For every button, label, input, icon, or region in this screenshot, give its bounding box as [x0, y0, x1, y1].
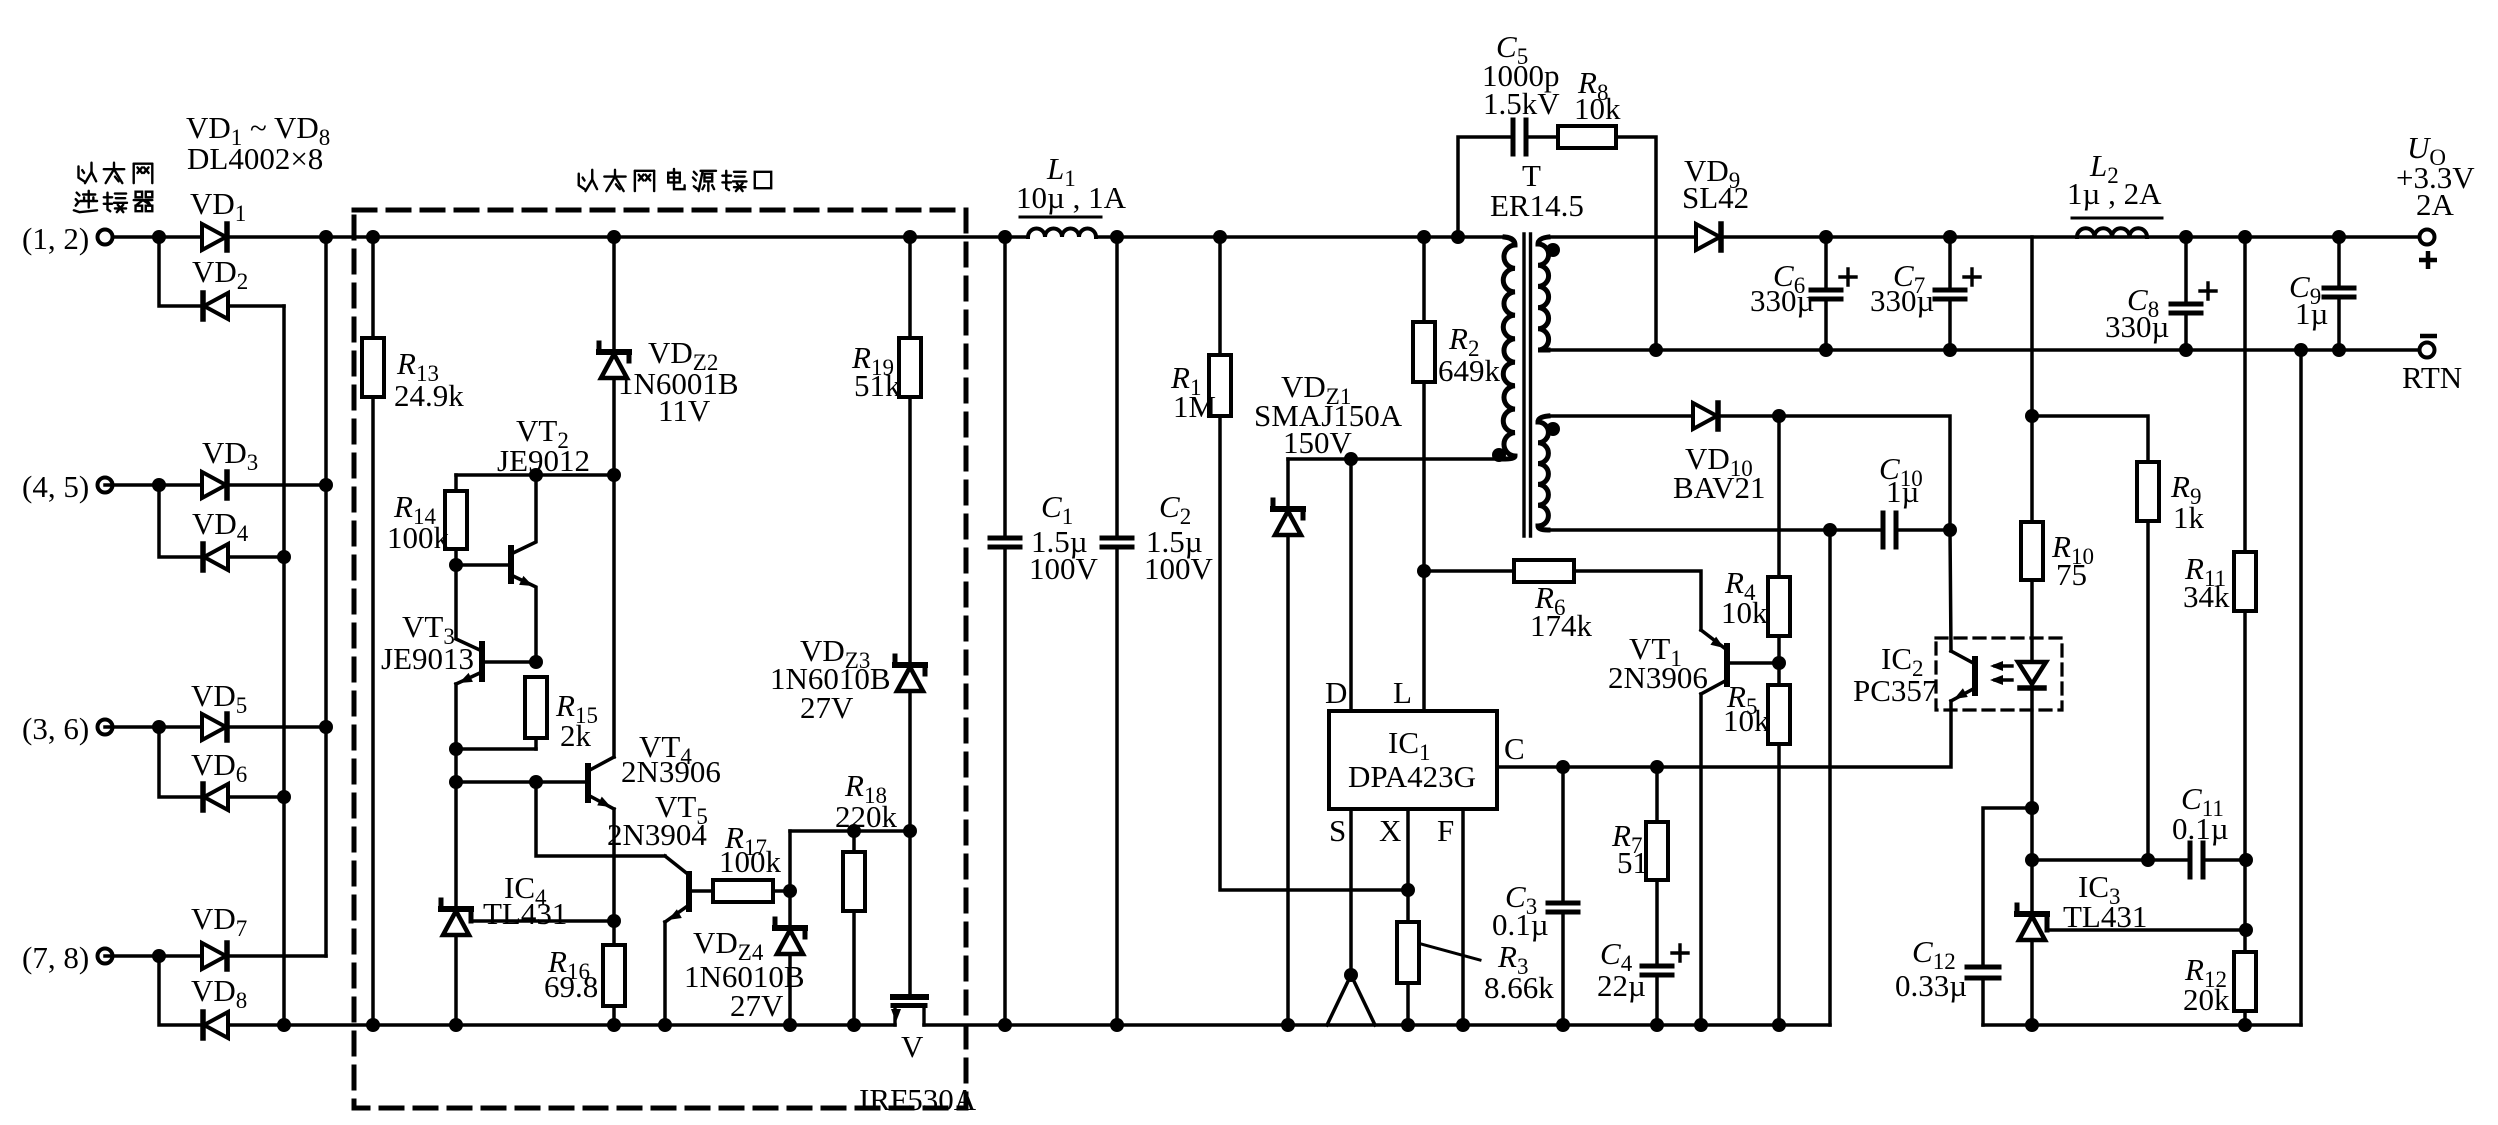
wire R10 to LED: [2030, 580, 2034, 662]
svg-text:BAV21: BAV21: [1673, 470, 1765, 505]
capacitor C3 0.1u: [1548, 901, 1578, 906]
wire primary bottom wire y459: [1288, 457, 1500, 461]
node junction VD3 cathode: [319, 478, 333, 492]
wire C10 to VD10 node: [1898, 528, 1950, 532]
wire R13 top lead: [371, 237, 375, 338]
arrow opto emitter: [1954, 688, 1968, 699]
wire VD10 cathode wire: [1718, 416, 1950, 530]
svg-text:1µ: 1µ: [1886, 474, 1919, 509]
wire R4 bottom lead: [1777, 636, 1781, 663]
node junction R7 top: [1650, 760, 1664, 774]
wire IC4 ref wire: [471, 919, 614, 923]
capacitor C1 1.5u: [990, 536, 1020, 541]
wire D pin lead: [1349, 459, 1353, 711]
node junction IC3 bus: [2025, 1018, 2039, 1032]
wire R6 left wire: [1424, 569, 1514, 573]
node junction (3,6) branch: [152, 720, 166, 734]
node junction R2/R6 tap: [1417, 564, 1431, 578]
resistor R15 2k: [525, 677, 547, 738]
node junction C8 top: [2179, 230, 2193, 244]
wire R16 bottom lead: [612, 1006, 616, 1025]
transformer core: [1524, 234, 1531, 536]
svg-text:1µ , 2A: 1µ , 2A: [2067, 176, 2162, 211]
inductor L1: [1028, 229, 1096, 238]
wire R11 bottom lead: [2243, 611, 2247, 952]
node junction R17/VDZ4: [783, 884, 797, 898]
node junction R12 bus: [2238, 1018, 2252, 1032]
svg-text:1µ: 1µ: [2295, 296, 2328, 331]
wire VT1 collector diag: [1701, 680, 1727, 694]
capacitor C9 1u: [2324, 286, 2354, 291]
wire VD4 branch down: [159, 485, 203, 557]
wire C5 to R8: [1528, 135, 1558, 139]
svg-text:11V: 11V: [658, 393, 711, 428]
svg-text:330µ: 330µ: [1750, 283, 1814, 318]
node junction C6 top: [1819, 230, 1833, 244]
wire R15 bottom lead: [534, 738, 538, 749]
wire VT1 base lead: [1727, 661, 1779, 665]
svg-text:(3, 6): (3, 6): [22, 711, 89, 746]
wire VDZ1 bottom lead to bus: [1286, 535, 1290, 1025]
svg-text:2N3904: 2N3904: [607, 817, 707, 852]
wire C11 right wire: [2206, 858, 2246, 862]
transformer auxiliary winding: [1538, 416, 1548, 530]
wire C2 top lead: [1115, 237, 1119, 538]
diode VD6: [204, 784, 228, 810]
svg-text:IRF530A: IRF530A: [859, 1082, 977, 1117]
svg-text:S: S: [1329, 813, 1346, 848]
node junction VT5 emitter bus: [658, 1018, 672, 1032]
svg-text:174k: 174k: [1530, 608, 1593, 643]
base bar IC2 phototransistor: [1972, 659, 1978, 693]
node junction R9 bottom: [2141, 853, 2155, 867]
node junction snubber to rail: [1649, 343, 1663, 357]
wire VDZ3 to gate node: [908, 691, 912, 831]
wire C9 bottom lead: [2337, 301, 2341, 350]
wire C12 top wire: [1983, 808, 2032, 965]
svg-text:330µ: 330µ: [1870, 283, 1934, 318]
wire R1 to X pin wire: [1220, 416, 1408, 890]
wire S pin lead: [1349, 809, 1353, 975]
wire R19 to VDZ3: [908, 397, 912, 665]
wire S tent right leg: [1351, 975, 1375, 1025]
svg-text:330µ: 330µ: [2105, 309, 2169, 344]
wire aux top wire: [1548, 414, 1693, 418]
resistor R10 75: [2021, 522, 2043, 580]
svg-text:100V: 100V: [1144, 551, 1214, 586]
wire VT4 base wire y782: [456, 780, 588, 784]
node junction C2 bus: [1110, 1018, 1124, 1032]
svg-text:34k: 34k: [2183, 579, 2230, 614]
node junction R11 top: [2238, 230, 2252, 244]
wire (3,6) row: [105, 725, 202, 729]
wire VDZ2 line to VT4 collector: [612, 475, 616, 757]
wire C1 top lead: [1003, 237, 1007, 538]
diode VD10 BAV21: [1693, 403, 1717, 429]
node junction R18 bus: [847, 1018, 861, 1032]
diode VD2: [204, 293, 228, 319]
inductor L2: [2077, 228, 2147, 237]
svg-text:1.5kV: 1.5kV: [1483, 86, 1560, 121]
svg-text:V: V: [901, 1029, 924, 1064]
node junction C3 top: [1556, 760, 1570, 774]
svg-text:JE9013: JE9013: [381, 641, 474, 676]
resistor R17 100k: [713, 880, 773, 902]
label Ethernet connector line2: lian jie qi (CJK drawn strokes): [74, 191, 152, 212]
wire LED top lead: [2030, 416, 2034, 522]
node junction y782 left: [449, 775, 463, 789]
node junction C3 bus: [1556, 1018, 1570, 1032]
resistor R12 20k: [2234, 952, 2256, 1011]
node junction C11 left node: [2025, 853, 2039, 867]
wire secondary return rail: [1548, 348, 2427, 352]
wire C3 top lead: [1561, 767, 1565, 903]
terminal pin (4,5): [98, 478, 113, 493]
resistor R9 1k: [2137, 462, 2159, 521]
wire R17 right lead: [773, 889, 790, 893]
resistor R8 10k: [1558, 126, 1616, 148]
wire primary ground bus: [228, 1023, 895, 1027]
diode VD3: [202, 472, 226, 498]
resistor R19 51k: [899, 338, 921, 397]
resistor R4 10k: [1768, 577, 1790, 636]
node junction riser rail: [2294, 343, 2308, 357]
wire top rail left segment: [105, 235, 202, 239]
svg-text:(1, 2): (1, 2): [22, 221, 89, 256]
wire R14 top bend: [454, 475, 458, 491]
node junction C10 right: [1943, 523, 1957, 537]
capacitor C12 0.33u: [1967, 965, 1999, 970]
wire C8 top lead: [2184, 237, 2188, 304]
wire R5 top lead: [1777, 663, 1781, 685]
wire R5 bottom lead: [1777, 744, 1781, 1025]
zener VDZ4 1N6010B: [775, 925, 805, 931]
node junction y475 x614: [607, 468, 621, 482]
wire opto collector diag: [1951, 651, 1975, 664]
wire R2 to L pin: [1422, 382, 1426, 711]
base bar VT5: [686, 874, 692, 909]
node junction C11 right node: [2239, 853, 2253, 867]
node junction VT2 collector top: [529, 468, 543, 482]
zener IC4 TL431: [441, 906, 471, 912]
wire C9 top lead: [2337, 237, 2341, 288]
resistor R13 24.9k: [362, 338, 384, 397]
wire C6 bottom lead: [1824, 303, 1828, 350]
wire C4 bottom lead: [1655, 979, 1659, 1025]
capacitor C6 330u: [1811, 288, 1841, 293]
wire R6 right wire: [1574, 571, 1701, 630]
wire C11 left wire: [2032, 858, 2188, 862]
arrow VT2 emitter: [519, 576, 533, 586]
wire R7 top lead: [1655, 767, 1659, 822]
node junction R3 bus: [1401, 1018, 1415, 1032]
wire C2 bottom lead: [1115, 551, 1119, 1025]
wire gate drive wire up: [788, 831, 792, 891]
wire opto emitter diag: [1951, 688, 1975, 701]
wire top rail after VD1: [228, 235, 1028, 239]
node junction TL431 ref / VT4 emitter: [607, 914, 621, 928]
node primary phase dot: [1492, 448, 1506, 462]
arrow VT1 emitter: [1710, 637, 1724, 648]
svg-text:220k: 220k: [835, 799, 898, 834]
wire VT4 collector diag: [588, 757, 614, 771]
resistor R7 51: [1646, 822, 1668, 880]
base bar VT4: [585, 766, 591, 800]
node junction IC4 bus: [449, 1018, 463, 1032]
wire VD8 branch down: [159, 956, 203, 1025]
wire aux return drop to bus: [1828, 530, 1832, 1025]
wire C12 bottom lead: [1981, 978, 1985, 1025]
node junction C8 bottom: [2179, 343, 2193, 357]
wire C5 branch up: [1458, 137, 1511, 237]
capacitor C10 1u: [1881, 513, 1886, 547]
node junction C7 bottom: [1943, 343, 1957, 357]
svg-text:F: F: [1437, 813, 1454, 848]
svg-text:75: 75: [2056, 557, 2087, 592]
node junction F bus: [1456, 1018, 1470, 1032]
capacitor C11 0.1u: [2188, 843, 2193, 877]
svg-text:2N3906: 2N3906: [621, 754, 721, 789]
wire R12 bottom lead: [2243, 1011, 2247, 1025]
IC1 DPA423G: [1329, 711, 1497, 809]
wire VD2 branch down: [159, 237, 203, 306]
node junction C12 branch: [2025, 801, 2039, 815]
terminal pin (1,2): [98, 230, 113, 245]
wire wire y475 R14 to VDZ2 line: [456, 473, 614, 477]
node junction R1 top: [1213, 230, 1227, 244]
svg-text:20k: 20k: [2183, 982, 2230, 1017]
node junction VDZ1 bus: [1281, 1018, 1295, 1032]
node junction C6 bottom: [1819, 343, 1833, 357]
svg-text:DPA423G: DPA423G: [1348, 759, 1476, 794]
svg-text:ER14.5: ER14.5: [1490, 188, 1584, 223]
R3 pointer line: [1421, 944, 1480, 960]
node junction C4 bus: [1650, 1018, 1664, 1032]
wire S tent left leg: [1327, 975, 1351, 1025]
svg-text:27V: 27V: [730, 988, 784, 1023]
node junction D pin: [1344, 452, 1358, 466]
wire R11 top lead: [2243, 237, 2247, 552]
svg-text:TL431: TL431: [483, 896, 567, 931]
zener IC3 TL431: [2017, 911, 2047, 917]
wire C1 bottom lead: [1003, 551, 1007, 1025]
diode VD9 SL42: [1696, 224, 1720, 250]
svg-text:TL431: TL431: [2063, 899, 2147, 934]
resistor R1 1M: [1209, 355, 1231, 416]
transformer secondary winding: [1538, 237, 1549, 350]
wire R18 bottom lead: [852, 911, 856, 1025]
node junction C9 bottom: [2332, 343, 2346, 357]
wire VDZ1 top lead: [1286, 459, 1290, 509]
wire R18 top lead: [852, 831, 856, 852]
wire R4 top lead: [1777, 416, 1781, 577]
wire VDZ2 bottom lead: [612, 379, 616, 475]
wire VT1 collector column: [1699, 694, 1703, 1025]
node junction VDZ1 net top: [1417, 230, 1431, 244]
node junction VD4 out: [277, 550, 291, 564]
wire C pin wire: [1497, 701, 1951, 767]
node junction positive column top: [319, 230, 333, 244]
wire R2 top lead: [1422, 237, 1426, 322]
wire R14 bottom lead: [454, 549, 458, 637]
arrow VT3 emitter: [459, 673, 473, 683]
dashed box Ethernet power interface: [354, 210, 966, 1108]
wire F pin lead: [1461, 809, 1465, 1025]
node junction aux return / C12 line: [1823, 523, 1837, 537]
node junction R14 bottom: [449, 558, 463, 572]
wire R13 bottom lead to bus: [371, 397, 375, 1025]
label Ethernet connector line1: yi tai wang (CJK drawn strokes): [79, 163, 153, 183]
wire VD7 to positive column: [227, 954, 326, 958]
svg-text:10µ , 1A: 10µ , 1A: [1016, 180, 1127, 215]
wire VT5 base lead: [689, 889, 713, 893]
node junction C9 top: [2332, 230, 2346, 244]
wire R1 top lead: [1218, 237, 1222, 355]
zener VDZ2 1N6001B: [599, 349, 629, 355]
wire VT3 emitter column: [454, 684, 458, 905]
wire VT2 emitter: [511, 575, 536, 662]
label output minus mark: [2420, 334, 2437, 339]
svg-text:D: D: [1325, 675, 1347, 710]
svg-text:22µ: 22µ: [1597, 968, 1646, 1003]
node junction R13 bus: [366, 1018, 380, 1032]
arrow opto light 1: [1990, 661, 2003, 671]
svg-text:SL42: SL42: [1682, 180, 1749, 215]
svg-text:L: L: [1393, 675, 1412, 710]
wire top rail after VD9 to output +: [1724, 235, 2427, 239]
svg-text:10k: 10k: [1574, 91, 1621, 126]
terminal output RTN terminal: [2420, 343, 2435, 358]
diode VD7: [202, 943, 226, 969]
wire VDZ4 bottom lead: [788, 954, 792, 1025]
node junction VDZ3 bottom: [903, 824, 917, 838]
resistor R3 8.66k: [1397, 922, 1419, 983]
svg-text:X: X: [1379, 813, 1401, 848]
wire wire y749: [456, 747, 536, 751]
svg-text:51: 51: [1617, 845, 1648, 880]
node junction R18 top: [847, 824, 861, 838]
resistor R6 174k: [1514, 560, 1574, 582]
IC2 PC357 optocoupler dashed box: [1936, 638, 2062, 710]
wire negative column x=284: [282, 306, 286, 1025]
wire VT5 collector link: [536, 782, 665, 856]
zener VDZ3 1N6010B: [895, 662, 925, 668]
capacitor C4 22u: [1642, 964, 1672, 969]
wire (4,5) row: [105, 483, 202, 487]
svg-text:PC357: PC357: [1853, 673, 1937, 708]
node junction C7 top: [1943, 230, 1957, 244]
svg-text:69.8: 69.8: [544, 969, 598, 1004]
label box title: yi tai wang dian yuan jie kou (CJK drawn strokes): [579, 169, 771, 191]
wire C7 top lead: [1948, 237, 1952, 290]
wire R19 top lead: [908, 237, 912, 338]
node junction y749: [449, 742, 463, 756]
wire VD2 to negative column: [228, 304, 284, 308]
svg-text:100k: 100k: [387, 520, 450, 555]
node junction R10 wire: [2025, 409, 2039, 423]
svg-text:51k: 51k: [854, 368, 901, 403]
wire IC3 ref wire: [2047, 928, 2246, 932]
svg-text:2A: 2A: [2416, 187, 2455, 222]
terminal pin (3,6): [98, 720, 113, 735]
wire LED line from top rail: [2030, 237, 2034, 416]
IC2 light arrows: [1995, 664, 2012, 667]
resistor R5 10k: [1768, 685, 1790, 744]
svg-text:10k: 10k: [1723, 703, 1770, 738]
wire gate lead: [908, 831, 912, 996]
capacitor C2 1.5u: [1102, 536, 1132, 541]
wire secondary ground bus: [1983, 1023, 2301, 1027]
wire LED bottom lead: [2030, 688, 2034, 914]
node aux phase dot: [1546, 422, 1560, 436]
wire VT3 collector diag: [456, 639, 482, 651]
terminal output + terminal: [2420, 230, 2435, 245]
resistor R11 34k: [2234, 552, 2256, 611]
node junction R5 bus: [1772, 1018, 1786, 1032]
wire R7 to C4: [1655, 880, 1659, 966]
svg-text:150V: 150V: [1283, 425, 1353, 460]
node junction X pin: [1401, 883, 1415, 897]
node junction (7,8) branch: [152, 949, 166, 963]
wire R3 bottom lead: [1406, 983, 1410, 1025]
arrow VT5 emitter: [668, 909, 682, 920]
svg-text:0.1µ: 0.1µ: [1492, 907, 1549, 942]
node junction VDZ2 top: [607, 230, 621, 244]
wire VD5 to positive column: [227, 725, 326, 729]
wire top rail after L1: [1096, 235, 1505, 239]
zener VDZ1 SMAJ150A: [1273, 506, 1303, 512]
wire VT2 base wire: [456, 563, 511, 567]
MOSFET V IRF530A: [893, 994, 926, 1000]
wire opto collector line: [1950, 530, 1951, 651]
svg-text:10k: 10k: [1721, 595, 1768, 630]
capacitor C8 330u: [2171, 302, 2201, 307]
wire R16 top lead: [612, 921, 616, 945]
node junction C2 top: [1110, 230, 1124, 244]
node junction VDZ4 bus: [783, 1018, 797, 1032]
wire C3 bottom lead: [1561, 916, 1565, 1025]
wire aux return wire: [1548, 528, 1881, 532]
svg-text:100V: 100V: [1029, 551, 1099, 586]
svg-text:C: C: [1504, 731, 1525, 766]
wire IC4 anode lead: [454, 935, 458, 1025]
node junction C5 branch: [1451, 230, 1465, 244]
svg-text:0.33µ: 0.33µ: [1895, 968, 1967, 1003]
diode VD8: [204, 1012, 228, 1038]
wire VT5 collector diag: [665, 856, 689, 875]
svg-text:DL4002×8: DL4002×8: [187, 141, 323, 176]
wire VD6 to negative column: [228, 795, 284, 799]
base bar VT2: [508, 548, 514, 581]
node junction R13 top: [366, 230, 380, 244]
node junction (1,2) row: [152, 230, 166, 244]
svg-text:649k: 649k: [1438, 353, 1501, 388]
wire VT5 emitter column: [663, 922, 667, 1025]
wire VDZ2 top lead: [612, 237, 616, 352]
wire VT1 emitter diag: [1701, 630, 1727, 650]
wire R9 bottom lead: [2146, 521, 2150, 860]
resistor R2 649k: [1413, 322, 1435, 382]
wire VD4 to negative column: [228, 555, 284, 559]
svg-text:8.66k: 8.66k: [1484, 970, 1554, 1005]
wire VT3 base wire: [482, 660, 536, 664]
svg-text:24.9k: 24.9k: [394, 378, 464, 413]
wire top rail secondary side: [1548, 235, 1696, 239]
svg-text:2N3906: 2N3906: [1608, 660, 1708, 695]
node junction R19 top: [903, 230, 917, 244]
terminal pin (7,8): [98, 949, 113, 964]
node junction R4 top: [1772, 409, 1786, 423]
